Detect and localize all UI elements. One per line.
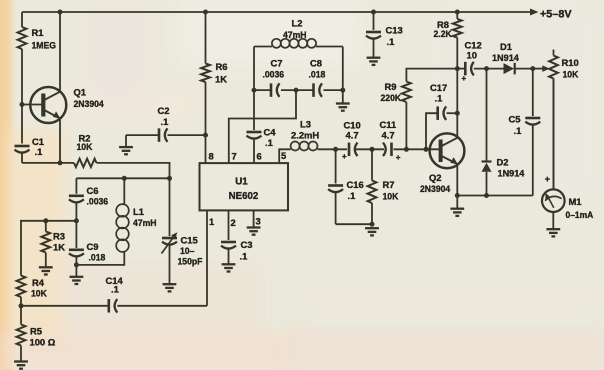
node R9 bottom	[404, 147, 409, 152]
node L1 top	[122, 176, 127, 181]
wire C2 right	[168, 134, 206, 136]
node R4 R5 C14 junction	[19, 303, 24, 308]
resistor R4	[17, 276, 26, 298]
label C5 value	[509, 114, 522, 137]
svg-text:1K: 1K	[53, 242, 65, 253]
label L2 value	[283, 18, 307, 41]
label C4 value	[264, 127, 277, 149]
svg-text:D2: D2	[497, 157, 509, 168]
node R8 rail	[455, 10, 460, 15]
capacitor C8	[314, 83, 323, 97]
ground C2	[119, 147, 133, 154]
label U1 pin 6	[257, 151, 262, 162]
svg-text:C8: C8	[310, 58, 322, 69]
wire U1 pin1	[206, 210, 208, 305]
label R10 value	[562, 57, 579, 80]
wire U1 pin2	[228, 210, 230, 240]
wire +5-8V supply rail	[22, 9, 539, 16]
svg-text:2: 2	[231, 217, 236, 228]
wire L1 bottom lead	[76, 251, 124, 265]
svg-text:1N914: 1N914	[492, 53, 520, 63]
svg-text:R6: R6	[216, 61, 228, 72]
inductor L1	[116, 204, 129, 252]
svg-text:NE602: NE602	[229, 191, 259, 202]
label C16 value	[347, 179, 364, 201]
svg-text:R7: R7	[383, 179, 395, 190]
svg-text:.0036: .0036	[263, 69, 285, 79]
op-amp U1 NE602 box	[200, 163, 289, 210]
svg-text:C3: C3	[241, 239, 253, 250]
ground M1	[546, 229, 560, 236]
wire R4 to R5	[20, 297, 22, 325]
wire C5 top lead	[532, 69, 534, 116]
svg-text:R4: R4	[32, 277, 45, 288]
wire C12 to D1	[474, 68, 504, 70]
wire C17 left	[426, 113, 438, 149]
wire bottom feedback	[21, 305, 207, 307]
resistor R7	[368, 149, 377, 224]
svg-text:3: 3	[256, 216, 261, 227]
wire R5 to ground	[20, 346, 22, 362]
svg-text:10K: 10K	[562, 69, 578, 79]
diode D2	[482, 69, 492, 196]
svg-text:C11: C11	[380, 119, 397, 130]
node C5 top junction	[530, 66, 535, 71]
label M1 plus	[545, 174, 550, 184]
label C2 value	[158, 105, 170, 127]
wire Q2 collector	[456, 69, 458, 138]
label C9 value	[87, 241, 106, 263]
label U1 pin 2	[231, 217, 236, 228]
wire C16 bottom	[336, 223, 372, 225]
svg-text:100 Ω: 100 Ω	[30, 337, 56, 348]
label U1	[229, 177, 259, 203]
node R7 tap	[370, 147, 375, 152]
svg-text:L1: L1	[133, 206, 144, 217]
svg-text:.1: .1	[514, 125, 522, 136]
label L1 value	[133, 206, 157, 228]
inductor L3	[291, 142, 318, 151]
node D2 top junction	[484, 66, 489, 71]
wire U1 pin6 upper	[253, 90, 255, 130]
svg-text:C6: C6	[87, 185, 99, 196]
label C6 value	[87, 185, 109, 207]
node R3 junction	[43, 218, 48, 223]
svg-text:R10: R10	[562, 57, 579, 68]
svg-text:47mH: 47mH	[133, 218, 157, 228]
wire R3 top	[46, 221, 77, 232]
svg-text:L3: L3	[300, 119, 311, 130]
label U1 pin 1	[209, 216, 214, 227]
svg-text:C5: C5	[509, 114, 521, 125]
svg-text:C2: C2	[158, 105, 170, 116]
node R8 R9 C12 junction	[455, 66, 460, 71]
svg-text:10–: 10–	[180, 246, 194, 256]
svg-text:L2: L2	[292, 18, 303, 29]
label U1 pin 3	[256, 216, 261, 227]
inductor L2	[254, 39, 343, 48]
resistor R6	[201, 12, 210, 163]
capacitor C16	[328, 186, 343, 225]
svg-text:C17: C17	[430, 82, 447, 93]
capacitor C9	[69, 250, 84, 276]
svg-text:.1: .1	[435, 93, 443, 104]
resistor R9	[402, 69, 457, 150]
svg-text:10: 10	[467, 50, 477, 61]
label R6 value	[215, 61, 227, 85]
wire C1 to R2	[22, 162, 74, 164]
wire C7 C8 row	[254, 89, 343, 91]
node C8 right junction	[340, 88, 345, 93]
svg-text:.1: .1	[35, 146, 43, 157]
svg-text:Q2: Q2	[429, 172, 442, 183]
node C16 tap	[333, 147, 338, 152]
label C14 value	[106, 275, 124, 295]
wire C2 ground stem	[125, 135, 127, 147]
capacitor C10	[349, 143, 358, 157]
svg-text:0–1mA: 0–1mA	[566, 210, 594, 221]
svg-text:C9: C9	[87, 241, 99, 252]
svg-text:4.7: 4.7	[382, 130, 395, 141]
label C10 value	[342, 120, 361, 162]
label R5 value	[30, 326, 56, 348]
label D2 value	[497, 157, 526, 179]
transistor Q1	[30, 87, 66, 123]
wire C17 right	[447, 112, 458, 114]
label C12 value	[462, 40, 482, 84]
svg-text:.018: .018	[89, 252, 106, 262]
wire Q1 base	[22, 104, 42, 106]
ground R5	[14, 362, 28, 369]
capacitor C2	[159, 128, 168, 142]
label C11 value	[380, 119, 401, 162]
node C17 left junction	[424, 147, 429, 152]
label R9 value	[380, 81, 401, 103]
ground Q2	[450, 209, 464, 216]
svg-text:220K: 220K	[380, 93, 401, 103]
resistor R8	[453, 12, 462, 69]
label D1 value	[492, 41, 520, 63]
svg-text:C16: C16	[347, 179, 364, 190]
label R4 value	[31, 277, 47, 299]
node C15 top	[167, 176, 172, 181]
svg-text:+: +	[462, 74, 467, 83]
capacitor C5	[525, 118, 540, 196]
wire D1 to R10 wiper	[516, 65, 550, 72]
wire U1 pin5	[279, 149, 290, 163]
svg-text:4.7: 4.7	[346, 130, 359, 141]
capacitor C11	[383, 143, 392, 157]
capacitor C3	[221, 242, 236, 264]
svg-text:1MEG: 1MEG	[31, 40, 55, 50]
wire R3 to ground	[45, 253, 47, 267]
svg-text:2.2K: 2.2K	[434, 29, 453, 39]
node C9 ground junction	[74, 262, 79, 267]
ground R7	[365, 228, 379, 235]
wire L2 ground stem	[342, 90, 344, 103]
node Q1 emitter junction	[58, 160, 63, 165]
wire C15 top lead	[169, 178, 171, 236]
svg-text:.1: .1	[387, 36, 395, 47]
wire C2 left	[126, 134, 159, 136]
label C3 value	[240, 239, 253, 262]
svg-text:.1: .1	[265, 137, 273, 148]
node R6 rail	[203, 10, 208, 15]
svg-text:U1: U1	[235, 177, 248, 188]
resistor R10 pot	[549, 50, 558, 189]
svg-text:+: +	[396, 153, 401, 162]
svg-text:R1: R1	[32, 27, 44, 38]
svg-text:10K: 10K	[77, 142, 93, 152]
label R3 value	[53, 231, 65, 253]
label R8 value	[434, 19, 453, 39]
capacitor C14	[109, 299, 118, 313]
ground U1 pin3	[247, 228, 261, 235]
label C1 value	[32, 136, 44, 157]
wire oscillator top	[76, 177, 169, 179]
svg-text:.1: .1	[348, 190, 356, 201]
wire to C12	[457, 68, 465, 70]
wire U1 pin3	[253, 210, 255, 227]
label R2 value	[77, 133, 93, 153]
svg-text:10K: 10K	[383, 191, 399, 201]
node C7 C8 junction	[294, 88, 299, 93]
wire L3 to C10	[318, 148, 348, 150]
svg-text:47mH: 47mH	[283, 30, 307, 40]
wire U1 pin7 link	[229, 90, 296, 163]
svg-text:2N3904: 2N3904	[420, 184, 450, 194]
label L3 value	[291, 119, 319, 141]
wire feedback left	[21, 221, 46, 276]
svg-text:.018: .018	[309, 69, 326, 79]
svg-text:R5: R5	[30, 326, 42, 337]
wire Q2 emitter	[456, 165, 458, 196]
svg-text:R9: R9	[385, 81, 397, 92]
ground C3	[222, 264, 236, 271]
node R7 ground junction	[370, 222, 375, 227]
svg-text:.1: .1	[240, 251, 248, 262]
resistor R1	[18, 12, 27, 144]
label +5-8V	[540, 9, 572, 21]
svg-text:Q1: Q1	[74, 87, 87, 98]
svg-text:.1: .1	[161, 116, 169, 127]
node Q1 base junction	[20, 102, 25, 107]
label C8 value	[309, 58, 326, 80]
ground C13	[367, 58, 381, 65]
ground C15	[163, 284, 177, 291]
label R7 value	[383, 179, 399, 202]
svg-text:C4: C4	[264, 127, 277, 138]
diode D1	[504, 63, 515, 75]
svg-text:C15: C15	[181, 235, 198, 246]
svg-text:.0036: .0036	[87, 196, 109, 206]
capacitor C12	[465, 62, 474, 76]
capacitor C4	[247, 132, 262, 163]
svg-text:+5–8V: +5–8V	[540, 9, 572, 21]
wire C11 to Q2 base	[394, 148, 440, 150]
wire M1 ground stem	[552, 212, 554, 229]
label C13 value	[386, 25, 403, 48]
node C17 right junction	[455, 111, 460, 116]
svg-text:5: 5	[281, 150, 286, 161]
label U1 pin 8	[209, 151, 214, 162]
wire C16 top lead	[335, 149, 337, 183]
svg-text:1: 1	[209, 216, 214, 227]
wire C10 to C11	[356, 148, 384, 150]
svg-text:1K: 1K	[215, 74, 227, 85]
wire L2 left leg	[253, 47, 255, 91]
wire emitter node row	[457, 195, 533, 197]
wire L1 top lead	[123, 178, 125, 204]
node C2 junction	[203, 133, 208, 138]
svg-text:+: +	[545, 174, 550, 184]
node D2 bottom junction	[484, 193, 489, 198]
node Q2 emitter junction	[455, 193, 460, 198]
capacitor C1	[15, 146, 30, 163]
ground R3	[39, 267, 53, 274]
svg-text:7: 7	[232, 151, 237, 162]
svg-text:C7: C7	[271, 58, 283, 69]
resistor R2	[74, 159, 97, 167]
svg-text:D1: D1	[500, 41, 512, 52]
svg-text:10K: 10K	[31, 288, 47, 298]
node Q1 collector on rail	[58, 10, 63, 15]
resistor R5	[17, 325, 26, 346]
label C15 value	[178, 235, 203, 267]
capacitor C17	[438, 106, 447, 120]
label U1 pin 7	[232, 151, 237, 162]
transistor Q2	[430, 133, 465, 168]
meter M1	[542, 79, 565, 213]
wire Q1 collector	[59, 12, 61, 92]
svg-text:+: +	[342, 152, 347, 161]
wire R2 to oscillator loop	[97, 163, 170, 178]
capacitor C13	[366, 12, 381, 57]
svg-text:C13: C13	[386, 25, 403, 36]
wire L2 right leg	[342, 47, 344, 91]
label Q2	[420, 172, 450, 194]
wire top to C6	[75, 178, 77, 194]
svg-text:6: 6	[257, 151, 262, 162]
svg-text:2.2mH: 2.2mH	[291, 130, 319, 141]
ground C9	[70, 277, 84, 284]
svg-text:150pF: 150pF	[178, 256, 203, 266]
wire Q2 ground stem	[456, 196, 458, 209]
node C13 rail	[371, 10, 376, 15]
capacitor C7	[271, 83, 280, 97]
label M1 value	[566, 196, 594, 220]
capacitor C6	[69, 196, 84, 248]
svg-text:2N3904: 2N3904	[74, 99, 104, 109]
label U1 pin 5	[281, 150, 286, 161]
svg-text:.1: .1	[111, 284, 119, 295]
label Q1	[74, 87, 104, 110]
node C7 left junction	[252, 88, 257, 93]
svg-text:1N914: 1N914	[498, 168, 526, 178]
svg-text:M1: M1	[569, 196, 582, 207]
svg-text:8: 8	[209, 151, 214, 162]
label R1 value	[31, 27, 55, 51]
svg-text:R3: R3	[53, 231, 65, 242]
ground L2	[336, 104, 350, 111]
label C17 value	[430, 82, 447, 104]
node R3 tap	[74, 218, 79, 223]
resistor R3	[41, 232, 50, 253]
wire Q1 emitter	[59, 119, 61, 163]
label C7 value	[263, 58, 285, 80]
capacitor C15 variable	[162, 232, 178, 284]
